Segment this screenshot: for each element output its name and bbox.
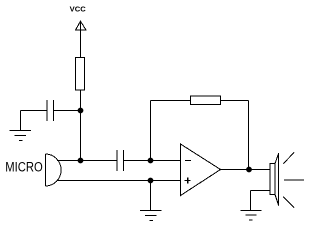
node junction feedback/output [247, 167, 252, 172]
svg-text:MICRO: MICRO [5, 160, 43, 175]
capacitor C2 [117, 150, 124, 171]
resistor R1 [76, 58, 85, 91]
wire mic bottom output to op-amp non-inverting input [57, 180, 180, 182]
capacitor C1 [47, 100, 54, 121]
wire feedback top right segment [221, 100, 249, 102]
sound wave upper [283, 152, 294, 163]
node junction rail/mic top wire [78, 158, 83, 163]
wire feedback top left segment [151, 100, 191, 102]
microphone MIC1 [46, 154, 62, 186]
wire mic top output to C2 [57, 160, 117, 162]
speaker LS1 driver [270, 164, 275, 195]
node junction R1/C1 [78, 108, 83, 113]
sound wave lower [283, 197, 294, 208]
wire R1 bottom to mic top rail [80, 90, 82, 161]
wire C1 left plate to ground [21, 111, 48, 131]
sound wave middle [284, 179, 304, 181]
node junction feedback/inverting input [148, 158, 153, 163]
op-amp plus symbol [185, 177, 191, 183]
wire feedback left vertical [150, 101, 152, 161]
wire speaker bottom terminal to ground [251, 191, 271, 211]
VCC power arrow [76, 21, 87, 30]
wire VCC arrow to R1 [80, 21, 82, 57]
wire non-inverting input to ground [150, 181, 152, 211]
svg-text:VCC: VCC [70, 5, 87, 14]
speaker LS1 cone [275, 153, 279, 205]
wire op-amp output to speaker [221, 169, 271, 171]
ground G2 [140, 211, 162, 221]
op-amp U1 [181, 144, 221, 196]
wire feedback right vertical [248, 101, 250, 170]
wire C2 to op-amp inverting input [124, 160, 181, 162]
wire C1 right plate to rail [54, 110, 81, 112]
op-amp minus symbol [185, 160, 191, 162]
resistor R2 [191, 96, 221, 105]
ground G1 [10, 131, 32, 141]
ground G3 [241, 211, 262, 221]
node junction ground branch/non-inverting input [148, 178, 153, 183]
